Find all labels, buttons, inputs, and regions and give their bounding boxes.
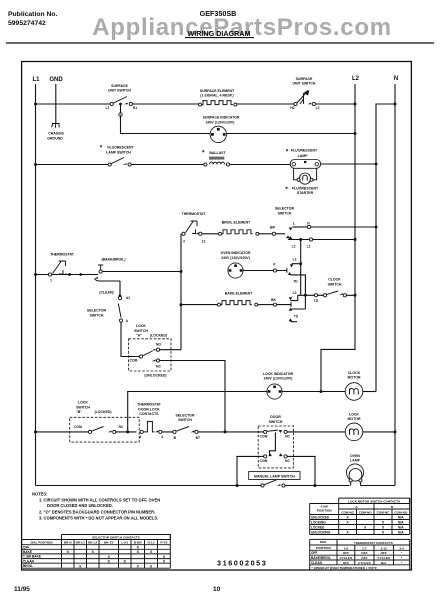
svg-text:(CLEAN): (CLEAN): [99, 291, 113, 295]
svg-text:BK-L2: BK-L2: [88, 541, 97, 545]
svg-text:UNIT SWITCH: UNIT SWITCH: [108, 89, 131, 93]
svg-text:SWITCH: SWITCH: [134, 329, 148, 333]
svg-text:*: *: [100, 145, 103, 152]
svg-text:"B": "B": [76, 410, 82, 414]
svg-text:2: 2: [183, 240, 185, 244]
svg-text:*: *: [401, 561, 403, 565]
wire element to right switch: [237, 103, 294, 105]
selector contact L2 y=295-300: [289, 291, 298, 301]
BR selector contact: [270, 226, 290, 239]
wire selector to door switch: [162, 431, 264, 433]
svg-text:BR: BR: [270, 226, 275, 230]
svg-text:NC: NC: [156, 365, 161, 369]
svg-text:OFF: OFF: [361, 551, 367, 555]
svg-text:N/A: N/A: [398, 521, 404, 525]
svg-text:THERMOSTAT CONTACTS: THERMOSTAT CONTACTS: [354, 541, 393, 545]
svg-text:STARTER: STARTER: [297, 191, 314, 195]
svg-text:3. COMPONENTS WITH * DO NOT A: 3. COMPONENTS WITH * DO NOT APPEAR ON AL…: [39, 515, 158, 520]
svg-text:L2: L2: [307, 245, 311, 249]
lock switch B: [70, 401, 140, 443]
wire indicator to L2: [227, 133, 356, 135]
svg-text:NO: NO: [156, 343, 161, 347]
surface unit switch (right): [290, 77, 319, 110]
svg-text:SURFACE ELEMENT: SURFACE ELEMENT: [200, 89, 235, 93]
svg-text:L2: L2: [352, 76, 360, 82]
svg-text:COM: COM: [260, 435, 268, 439]
svg-text:*: *: [286, 149, 289, 156]
svg-text:Publication No.: Publication No.: [8, 11, 58, 18]
clean selector contact A1: [99, 281, 130, 300]
svg-text:MOTOR: MOTOR: [348, 417, 361, 421]
svg-text:BALLAST: BALLAST: [209, 151, 226, 155]
svg-text:SWITCH: SWITCH: [278, 211, 292, 215]
svg-text:SWITCH: SWITCH: [76, 405, 90, 409]
svg-text:L1: L1: [32, 77, 40, 83]
surface indicator lamp: [203, 116, 240, 143]
svg-text:COM-NC: COM-NC: [341, 510, 354, 514]
svg-text:DIAL: DIAL: [320, 540, 327, 544]
svg-text:WIRING DIAGRAM: WIRING DIAGRAM: [187, 29, 250, 38]
fluorescent starter loop wires: [294, 168, 317, 180]
svg-text:A: A: [126, 319, 129, 323]
wire switch to oven lamp: [285, 485, 349, 487]
selector switch contacts table: [22, 535, 171, 569]
svg-text:CONTACTS: CONTACTS: [139, 412, 159, 416]
svg-text:12: 12: [202, 240, 206, 244]
wire fluorescent row y=164.5: [36, 164, 109, 166]
svg-text:BK: BK: [271, 298, 276, 302]
svg-text:OVEN: OVEN: [350, 454, 360, 458]
svg-text:B: B: [391, 505, 394, 509]
wire GND vertical: [55, 84, 57, 124]
thermostat contacts table: [310, 539, 410, 570]
thermostat door lock contacts: [137, 403, 163, 439]
header publication number: [8, 11, 58, 27]
svg-text:N/A: N/A: [398, 531, 404, 535]
wire bottom bus y=485.5: [36, 485, 261, 487]
bake element row: [181, 291, 291, 307]
svg-text:L1: L1: [106, 106, 110, 110]
ground chassis symbol: [47, 124, 64, 141]
svg-text:LOCK INDICATOR: LOCK INDICATOR: [263, 372, 293, 376]
wire oven line from bake/broil to x=181: [102, 271, 181, 273]
lock switch A: [129, 324, 171, 377]
svg-text:OFF: OFF: [381, 551, 387, 555]
selector row L/N y=227: [289, 222, 378, 231]
svg-text:3-4: 3-4: [399, 546, 404, 550]
node junction N/branch: [394, 103, 397, 106]
svg-text:NC: NC: [119, 425, 124, 429]
svg-text:COM-NO: COM-NO: [394, 510, 407, 514]
svg-text:DOOR CLOSED AND UNLOCKED.: DOOR CLOSED AND UNLOCKED.: [47, 503, 113, 508]
door switch: [258, 415, 293, 468]
selector switch block title: [275, 207, 294, 216]
svg-text:X: X: [79, 564, 82, 568]
svg-text:1. CIRCUIT SHOWN WITH ALL CON: 1. CIRCUIT SHOWN WITH ALL CONTROLS SET T…: [39, 498, 160, 503]
manual lamp switch contacts: [261, 480, 285, 487]
svg-text:SURFACE INDICATOR: SURFACE INDICATOR: [203, 116, 240, 120]
svg-text:X: X: [150, 564, 153, 568]
svg-text:LAMP SWITCH: LAMP SWITCH: [106, 150, 131, 154]
svg-text:3: 3: [139, 435, 141, 439]
svg-text:*: *: [285, 186, 288, 193]
svg-text:COM: COM: [74, 425, 82, 429]
svg-text:GROUND: GROUND: [47, 137, 63, 141]
fluorescent starter: [285, 173, 319, 195]
svg-text:L2: L2: [316, 106, 320, 110]
svg-text:BR-N: BR-N: [64, 541, 72, 545]
svg-text:(LOCKED): (LOCKED): [94, 410, 111, 414]
wire NC to x=225 drop: [160, 361, 225, 432]
svg-text:(BAKE/BROIL): (BAKE/BROIL): [101, 258, 125, 262]
wire switch to ballast: [131, 164, 204, 166]
svg-text:GND: GND: [49, 77, 63, 83]
ballast: [202, 150, 230, 167]
svg-text:OFF: OFF: [311, 551, 317, 555]
svg-text:POSITION: POSITION: [316, 546, 332, 550]
svg-text:DOOR LOCK: DOOR LOCK: [138, 407, 160, 411]
svg-text:240V (120V/120V): 240V (120V/120V): [221, 256, 250, 260]
svg-text:COM: COM: [130, 359, 138, 363]
svg-text:THERMOSTAT: THERMOSTAT: [137, 403, 162, 407]
svg-text:THERMOSTAT: THERMOSTAT: [50, 253, 75, 257]
svg-text:CHASSIS: CHASSIS: [48, 132, 64, 136]
svg-text:LOCKED: LOCKED: [311, 526, 325, 530]
svg-text:SWITCH: SWITCH: [178, 418, 192, 422]
svg-text:LAMP: LAMP: [298, 154, 309, 158]
svg-text:THERMOSTAT: THERMOSTAT: [182, 212, 207, 216]
svg-text:SWITCH: SWITCH: [90, 313, 104, 317]
clock switch row y=295.3: [298, 278, 357, 304]
svg-text:P: P: [273, 263, 276, 267]
svg-text:H2: H2: [290, 106, 294, 110]
wire selector internal vertical x=300.7: [300, 240, 302, 296]
wire NO to x=181 riser: [160, 349, 181, 351]
svg-text:LOCKING: LOCKING: [311, 521, 326, 525]
svg-text:POSITION: POSITION: [317, 509, 333, 513]
selector row L2/L2 y=239.5: [288, 236, 357, 248]
svg-text:B-BR: B-BR: [134, 541, 142, 545]
svg-text:5995274742: 5995274742: [8, 20, 46, 27]
svg-text:BROIL: BROIL: [23, 564, 33, 568]
wire drop to surface indicator with connector pin 1: [121, 104, 211, 134]
svg-text:DIAL POSITION: DIAL POSITION: [30, 541, 52, 545]
fluorescent lamp switch: [100, 145, 135, 167]
svg-text:FLUORESCENT: FLUORESCENT: [107, 145, 134, 149]
svg-text:COM: COM: [260, 459, 268, 463]
svg-text:240V (120V/120V): 240V (120V/120V): [206, 120, 235, 124]
selector switch arm A1-A: [87, 304, 129, 324]
svg-text:CYCLES: CYCLES: [340, 556, 353, 560]
svg-text:(1 SIGNAL, 4 RESP.): (1 SIGNAL, 4 RESP.): [200, 94, 233, 98]
fluorescent lamp: [286, 149, 321, 169]
wire door switch lower NC drop: [287, 456, 315, 485]
svg-text:CYCLES: CYCLES: [358, 561, 371, 565]
svg-text:TD: TD: [314, 299, 319, 303]
surface unit switch (left): [106, 84, 138, 110]
lock motor: [345, 412, 363, 440]
svg-text:SWITCH: SWITCH: [328, 282, 342, 286]
svg-text:10: 10: [213, 586, 221, 593]
svg-text:SURFACE: SURFACE: [111, 84, 128, 88]
oven lamp: [346, 454, 363, 486]
svg-text:NC: NC: [285, 435, 290, 439]
node junction surface switch tap: [119, 103, 122, 106]
lock indicator lamp: [263, 372, 293, 399]
svg-text:LAMP: LAMP: [350, 459, 361, 463]
svg-text:LOCK: LOCK: [349, 412, 359, 416]
svg-text:SELECTOR: SELECTOR: [176, 413, 195, 417]
svg-text:316002053: 316002053: [217, 559, 267, 568]
wire lock B to contacts: [116, 431, 136, 433]
svg-text:N: N: [307, 222, 310, 226]
thermostat T2 (broil circuit): [182, 212, 207, 244]
svg-text:CLEAN: CLEAN: [23, 559, 35, 563]
svg-text:LOCK MOTOR SWITCH CONTACTS: LOCK MOTOR SWITCH CONTACTS: [348, 499, 400, 503]
svg-text:N/A: N/A: [398, 526, 404, 530]
svg-text:"A": "A": [136, 334, 142, 338]
svg-text:MANUAL LAMP SWITCH: MANUAL LAMP SWITCH: [254, 474, 295, 478]
svg-text:DOOR: DOOR: [270, 415, 281, 419]
oven indicator lamp: [220, 251, 250, 278]
svg-text:P-TS: P-TS: [160, 541, 167, 545]
svg-text:COM-NC: COM-NC: [377, 510, 390, 514]
svg-text:CLOCK: CLOCK: [328, 278, 341, 282]
svg-text:H1: H1: [133, 106, 137, 110]
svg-text:UNLOCKING: UNLOCKING: [311, 531, 331, 535]
wire oven indicator to P contact: [243, 270, 273, 272]
svg-text:BR-L2: BR-L2: [76, 541, 85, 545]
wire N vertical bus: [394, 84, 396, 486]
svg-text:L-A1: L-A1: [121, 541, 128, 545]
lock indicator feed wire from lock switch B bus: [128, 392, 267, 432]
wire broil to BR contact: [259, 233, 273, 235]
svg-text:N/A: N/A: [398, 516, 404, 520]
svg-text:OFF: OFF: [23, 545, 29, 549]
svg-text:4: 4: [161, 435, 163, 439]
wire door switch lower COM drop: [237, 456, 264, 485]
wire surface unit bus y=104: [36, 103, 111, 105]
svg-text:11/95: 11/95: [14, 586, 30, 593]
wire right switch to L2: [315, 103, 355, 105]
svg-text:BROIL ELEMENT: BROIL ELEMENT: [222, 221, 251, 225]
wire lock motor right to N: [363, 431, 395, 433]
svg-text:BAKE ELEMENT: BAKE ELEMENT: [225, 291, 253, 295]
svg-text:B: B: [174, 436, 177, 440]
svg-text:*: *: [401, 551, 403, 555]
svg-text:BK-TS: BK-TS: [104, 541, 113, 545]
svg-text:FLUORESCENT: FLUORESCENT: [291, 149, 318, 153]
lock motor switch contacts table: [310, 498, 410, 535]
svg-text:L: L: [293, 222, 295, 226]
svg-text:CLEAN: CLEAN: [311, 561, 323, 565]
svg-text:UNLOCKED: UNLOCKED: [311, 516, 330, 520]
svg-text:TS: TS: [294, 314, 299, 318]
svg-text:OFF: OFF: [343, 561, 349, 565]
wire L1 vertical bus: [35, 84, 37, 486]
svg-text:A1: A1: [126, 296, 130, 300]
svg-text:OFF: OFF: [343, 551, 349, 555]
svg-text:L2: L2: [292, 245, 296, 249]
wire x=181 vertical (oven feed): [180, 234, 182, 350]
TS selector contact: [289, 314, 299, 321]
wire door switch NC to lock motor: [287, 431, 345, 433]
svg-text:240V (120V/120V): 240V (120V/120V): [264, 377, 293, 381]
BK selector wedge and wire to TD node: [289, 295, 306, 311]
surface element E1: [199, 89, 237, 106]
svg-text:SURFACE: SURFACE: [296, 77, 313, 81]
svg-text:X: X: [137, 564, 140, 568]
header rule: [6, 42, 434, 44]
svg-text:LOCK: LOCK: [136, 324, 146, 328]
svg-text:1-6: 1-6: [344, 546, 349, 550]
wire ballast to fluorescent lamp: [230, 164, 291, 166]
broil element: [202, 221, 259, 236]
svg-text:1: 1: [50, 279, 52, 283]
svg-text:2. "O" DENOTES BACKGUARD CONN: 2. "O" DENOTES BACKGUARD CONNECTOR PIN N…: [39, 509, 155, 514]
border frame: [22, 62, 412, 571]
notes: [32, 492, 160, 521]
svg-text:N: N: [394, 76, 398, 82]
svg-text:*: *: [401, 556, 403, 560]
wire main lock bus y=431.9 from L1: [36, 431, 89, 433]
svg-text:TD: TD: [293, 280, 298, 284]
wire clock motor right to N branch: [363, 391, 376, 393]
wire L2 vertical bus with jog to clock motor: [321, 84, 355, 392]
wire lamp to N branch: [321, 163, 376, 165]
svg-text:D-LJ: D-LJ: [148, 541, 155, 545]
wire N branch x=376: [376, 104, 395, 392]
svg-text:CYCLES: CYCLES: [377, 556, 390, 560]
svg-text:L2: L2: [293, 258, 297, 262]
svg-text:2-12: 2-12: [381, 546, 387, 550]
clock motor: [345, 371, 363, 401]
svg-text:1-7: 1-7: [362, 546, 367, 550]
svg-text:UNIT SWITCH: UNIT SWITCH: [293, 82, 316, 86]
svg-text:OFF: OFF: [361, 556, 367, 560]
svg-text:T. BR BAKE: T. BR BAKE: [23, 555, 41, 559]
thermostat T1 (oven thermostat left): [48, 253, 74, 283]
selector contact L2 y=263.7: [290, 258, 303, 268]
svg-text:* OPENS AT OVEN TEMPERATURES >: * OPENS AT OVEN TEMPERATURES > 550°F: [312, 566, 377, 570]
wire surface element row: [132, 103, 198, 105]
svg-text:N/A: N/A: [381, 561, 387, 565]
svg-text:BAKE: BAKE: [23, 550, 32, 554]
svg-text:SELECTOR: SELECTOR: [275, 207, 294, 211]
wire A contact down to lock switch A COM: [121, 322, 139, 356]
svg-text:COM-NO: COM-NO: [359, 510, 372, 514]
svg-text:BAKE/BROIL: BAKE/BROIL: [311, 556, 331, 560]
P selector contact: [273, 263, 305, 296]
svg-text:CLOCK: CLOCK: [348, 371, 361, 375]
wire oven lamp to N: [361, 485, 396, 487]
svg-text:BT: BT: [196, 436, 200, 440]
wire lock indicator to clock motor: [282, 391, 345, 393]
wire thermostat bus y=274.5: [36, 274, 99, 276]
svg-text:FLUORESCENT: FLUORESCENT: [292, 186, 319, 190]
svg-text:L2: L2: [293, 291, 297, 295]
svg-text:OVEN INDICATOR: OVEN INDICATOR: [220, 251, 250, 255]
svg-text:MOTOR: MOTOR: [348, 376, 361, 380]
bake/broil selector contact: [94, 258, 125, 282]
svg-text:NC: NC: [285, 459, 290, 463]
svg-text:A: A: [355, 505, 358, 509]
svg-text:(LOCKED): (LOCKED): [150, 334, 167, 338]
svg-text:(UNLOCKED): (UNLOCKED): [144, 373, 166, 377]
svg-text:LOCK: LOCK: [78, 401, 88, 405]
svg-text:SWITCH: SWITCH: [269, 420, 283, 424]
svg-text:NOTES:: NOTES:: [32, 492, 47, 497]
svg-text:SELECTOR: SELECTOR: [87, 309, 106, 313]
manual lamp switch box: [249, 472, 300, 480]
svg-text:SELECTOR SWITCH CONTACTS: SELECTOR SWITCH CONTACTS: [92, 536, 140, 540]
svg-text:*: *: [202, 150, 205, 157]
selector switch B-BT contacts: [173, 413, 200, 440]
